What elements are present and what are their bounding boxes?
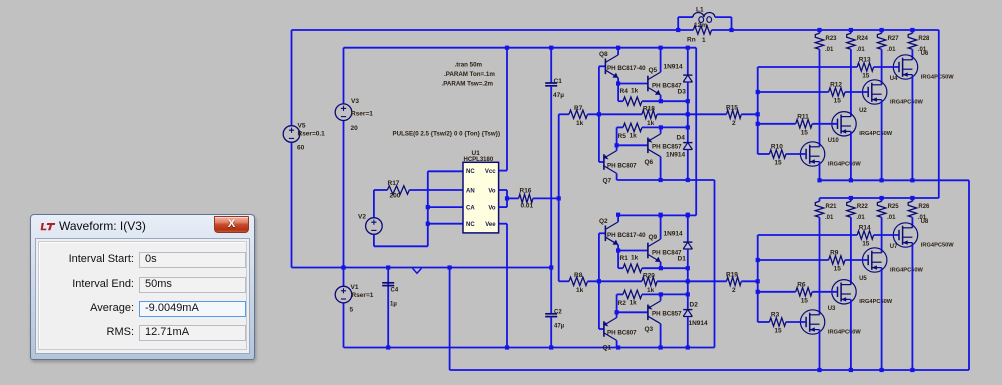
wire NPN emitter — [617, 245, 619, 251]
svg-text:AN: AN — [466, 188, 475, 194]
svg-text:Vee: Vee — [485, 222, 496, 228]
wire R left lead — [618, 267, 623, 269]
wire Vee pin — [499, 223, 507, 225]
node L1 right — [729, 28, 733, 32]
node Q3 collector rail A — [659, 345, 663, 349]
node emitter rail upper — [880, 178, 884, 182]
resistor Rn — [693, 26, 711, 34]
node collector rail top — [880, 28, 884, 32]
svg-text:R2: R2 — [618, 300, 627, 307]
node output top — [686, 99, 690, 103]
node output mid — [686, 279, 690, 283]
svg-text:1k: 1k — [647, 120, 655, 127]
wire Vcc pin — [499, 170, 507, 172]
svg-text:R7: R7 — [574, 105, 583, 112]
svg-text:C4: C4 — [391, 288, 399, 294]
svg-text:R12: R12 — [830, 82, 842, 89]
node opto drive — [557, 196, 561, 200]
resistor R8 — [569, 277, 588, 285]
wire NPN collector — [617, 48, 619, 55]
resistor R13 15 — [857, 63, 873, 71]
svg-text:R21: R21 — [826, 204, 838, 210]
wire diode mid column — [687, 249, 689, 310]
transistor U8 IRG4PC50W — [893, 223, 917, 247]
wire diode top feed — [687, 215, 689, 242]
svg-text:IRG4PC50W: IRG4PC50W — [859, 131, 893, 137]
transistor Q6 PH BC857 — [647, 138, 649, 154]
wire gate lead — [812, 291, 837, 293]
svg-text:V1: V1 — [351, 284, 359, 291]
transistor U6 IRG4PC50W — [893, 55, 917, 79]
svg-text:IRG4PC50W: IRG4PC50W — [859, 299, 893, 305]
wire collector lead — [819, 217, 821, 314]
resistor R14 15 — [857, 231, 873, 239]
wire mid NPN emitter drop — [660, 95, 662, 101]
svg-text:1N914: 1N914 — [664, 64, 684, 71]
svg-text:IRG4PC50W: IRG4PC50W — [921, 242, 955, 248]
wire mid NPN collector — [660, 215, 662, 239]
wire input to R20 — [588, 280, 643, 282]
node diode rail — [686, 46, 690, 50]
inductor L1 — [677, 17, 679, 30]
wire CA pin — [428, 206, 463, 208]
svg-text:R3: R3 — [771, 312, 780, 319]
node C2 rail A — [549, 345, 553, 349]
node mid PNP emitter — [659, 292, 663, 296]
wire C4 column — [387, 268, 389, 348]
wire V3 top — [343, 48, 345, 104]
node bottom rail — [849, 368, 853, 372]
wire collector lead — [819, 49, 821, 147]
wire upper emitter rail right — [820, 179, 970, 181]
resistor R6 15 — [796, 288, 813, 296]
svg-text:15: 15 — [834, 98, 842, 105]
wire up to emitter row — [616, 127, 618, 145]
node mid collector rail — [659, 213, 663, 217]
resistor R2 — [623, 290, 642, 298]
svg-text:R13: R13 — [859, 57, 871, 64]
wire to output node — [657, 113, 688, 115]
svg-text:R9: R9 — [830, 250, 839, 257]
wire gate lead — [786, 153, 806, 155]
node lower collector rail — [849, 196, 853, 200]
wire Vcc to rail — [506, 48, 508, 171]
wire mid PNP collector drop — [660, 324, 662, 347]
svg-text:200: 200 — [390, 193, 401, 200]
node mid PNP emitter — [659, 125, 663, 129]
node mid collector rail — [659, 46, 663, 50]
wire NC bottom pin — [428, 223, 463, 225]
wire Vo join — [506, 190, 508, 207]
wire gate feed vertical upper — [757, 67, 759, 154]
wire emitter row top — [642, 100, 688, 102]
wire collector lead — [850, 217, 852, 284]
svg-text:U10: U10 — [828, 138, 840, 144]
wire V2 minus lead — [373, 234, 375, 246]
wire R22 top lead — [850, 198, 852, 201]
wire mid PNP emitter rise — [660, 294, 662, 300]
wire lower Vee rail A — [344, 347, 715, 349]
svg-text:Rser=1: Rser=1 — [351, 111, 373, 118]
svg-text:PH BC857: PH BC857 — [652, 144, 682, 151]
node output top — [686, 266, 690, 270]
node D1 rail — [686, 213, 690, 217]
svg-text:Rn: Rn — [687, 37, 696, 44]
svg-text:IRG4PC50W: IRG4PC50W — [828, 161, 862, 167]
dialog Waveform: I(V3) — [30, 214, 255, 360]
svg-text:R8: R8 — [574, 272, 583, 279]
node lower collector rail — [910, 196, 914, 200]
wire V2 return bottom — [374, 245, 428, 247]
node bottom rail — [910, 368, 914, 372]
resistor R9 15 — [829, 256, 845, 264]
node Vcc rail junction — [505, 46, 509, 50]
svg-text:HCPL3180: HCPL3180 — [464, 157, 494, 163]
wire R17 left lead — [374, 189, 388, 191]
svg-text:R27: R27 — [888, 36, 900, 42]
diode D1 1N914 — [683, 241, 692, 243]
svg-text:Q8: Q8 — [599, 51, 608, 58]
wire R15 right lead — [741, 113, 757, 115]
wire chip left vertical — [427, 171, 429, 246]
wire NPN base lead — [599, 65, 606, 67]
svg-text:20: 20 — [351, 125, 359, 132]
wire bottom rail B — [450, 369, 969, 371]
resistor R10 15 — [769, 150, 786, 158]
svg-text:R28: R28 — [918, 36, 930, 42]
node R9 tap — [756, 258, 760, 262]
wire collector lead — [911, 49, 913, 60]
wire down to emitter row — [617, 251, 619, 269]
svg-text:R19: R19 — [726, 272, 738, 279]
node mid NPN emitter — [659, 266, 663, 270]
svg-text:2: 2 — [732, 120, 736, 127]
svg-text:Vo: Vo — [488, 188, 496, 194]
svg-text:U3: U3 — [828, 306, 836, 312]
wire diode bottom feed — [687, 317, 689, 348]
svg-text:R4: R4 — [620, 88, 629, 95]
op-amp U1 HCPL3180 body — [463, 162, 499, 233]
wire PNP collector drop — [616, 340, 618, 347]
wire R15 left lead — [688, 113, 727, 115]
resistor R24 .01 — [847, 33, 855, 49]
wire top rail right of Rn — [712, 29, 939, 31]
svg-text:Vcc: Vcc — [485, 169, 496, 175]
transistor Q8 PH BC817-40 — [604, 59, 606, 75]
svg-text:V5: V5 — [298, 123, 306, 130]
svg-text:5: 5 — [350, 307, 354, 314]
wire base column — [598, 233, 600, 329]
node V3-V1 mid rail — [341, 265, 345, 269]
svg-text:1N914: 1N914 — [664, 231, 684, 238]
svg-text:U2: U2 — [859, 108, 867, 114]
svg-text:D1: D1 — [678, 256, 687, 263]
diode D3 1N914 — [683, 74, 692, 76]
resistor R25 .01 — [877, 201, 885, 217]
wire emitter drop — [911, 243, 913, 370]
wire gate lead — [845, 91, 868, 93]
node diode rail — [686, 213, 690, 217]
wire V1 bottom — [343, 303, 345, 348]
wire R19 right lead — [741, 280, 757, 282]
wire R12 left lead — [758, 91, 829, 93]
node collector rail — [616, 46, 620, 50]
svg-text:1k: 1k — [631, 255, 639, 262]
svg-text:R16: R16 — [520, 188, 532, 195]
svg-text:R22: R22 — [857, 204, 869, 210]
wire R11 left lead — [758, 123, 796, 125]
wire mid NPN emitter drop — [660, 262, 662, 268]
svg-text:.01: .01 — [825, 215, 834, 221]
wire emitter drop — [850, 131, 852, 180]
svg-text:R23: R23 — [826, 36, 838, 42]
node D2 rail A — [686, 345, 690, 349]
resistor R21 .01 — [815, 201, 823, 217]
svg-text:.01: .01 — [825, 47, 834, 53]
svg-text:15: 15 — [834, 266, 842, 273]
transistor U3 IRG4PC50W — [800, 310, 824, 334]
wire ground drop — [449, 268, 451, 371]
wire R left lead — [618, 100, 623, 102]
svg-text:1k: 1k — [576, 287, 584, 294]
node collector rail top — [910, 28, 914, 32]
node L1 left — [676, 28, 680, 32]
wire V5 top — [291, 30, 293, 126]
resistor R23 .01 — [815, 33, 823, 49]
svg-text:R11: R11 — [797, 113, 809, 120]
node drive in upper — [756, 112, 760, 116]
svg-text:Q5: Q5 — [649, 67, 658, 74]
wire R27 top lead — [881, 30, 883, 33]
wire up to emitter row — [616, 294, 618, 312]
wire R28 top lead — [911, 30, 913, 33]
svg-text:PULSE(0 2.5 {Tsw/2} 0 0 {Ton}: PULSE(0 2.5 {Tsw/2} 0 0 {Ton} {Tsw}) — [393, 131, 501, 138]
capacitor C4 — [382, 282, 394, 284]
wire top rail left of Rn — [292, 29, 694, 31]
svg-text:Rser=0.1: Rser=0.1 — [298, 131, 326, 138]
wire emitter rail to rail A — [714, 180, 716, 348]
wire down to emitter row — [617, 84, 619, 102]
node Q6 collector rail — [659, 178, 663, 182]
node CA junction — [426, 205, 430, 209]
svg-text:IRG4PC50W: IRG4PC50W — [890, 99, 924, 105]
resistor R27 .01 — [877, 33, 885, 49]
node output mid — [686, 112, 690, 116]
ground flag — [413, 268, 422, 273]
svg-text:R15: R15 — [726, 105, 738, 112]
wire R left lead — [617, 126, 623, 128]
node ground drop — [448, 265, 452, 269]
svg-text:IRG4PC50W: IRG4PC50W — [890, 267, 924, 273]
wire emitter drop — [819, 162, 821, 181]
wire R3 left lead — [758, 321, 770, 323]
wire R21 top lead — [819, 198, 821, 201]
capacitor C1 — [545, 82, 557, 84]
svg-text:Q9: Q9 — [649, 234, 658, 241]
wire Vcc rail — [344, 47, 697, 49]
node output bottom — [686, 125, 690, 129]
svg-text:C1: C1 — [554, 78, 563, 85]
node C1 rail — [549, 46, 553, 50]
svg-text:15: 15 — [801, 297, 809, 304]
node mid NPN emitter — [659, 99, 663, 103]
svg-text:15: 15 — [801, 129, 809, 136]
node emitter rail upper — [910, 178, 914, 182]
svg-text:NC: NC — [466, 222, 475, 228]
node base tap — [597, 112, 601, 116]
wire gate lead — [874, 66, 899, 68]
voltage source V5 — [283, 126, 300, 143]
node PNP emitter tap — [615, 310, 619, 314]
wire emitter drop — [819, 330, 821, 370]
svg-text:1k: 1k — [630, 300, 638, 307]
svg-text:R14: R14 — [859, 225, 871, 232]
svg-text:1N914: 1N914 — [666, 152, 686, 159]
transistor U4 IRG4PC50W — [863, 80, 887, 104]
wire NPN base lead — [599, 232, 606, 234]
wire V2 plus lead — [373, 190, 375, 218]
svg-text:IRG4PC50W: IRG4PC50W — [828, 329, 862, 335]
svg-text:NC: NC — [466, 169, 475, 175]
node Vo junction — [505, 196, 509, 200]
node base tap — [597, 279, 601, 283]
node Q9 collector — [659, 213, 663, 217]
wire to output node — [657, 280, 688, 282]
svg-text:IRG4PC50W: IRG4PC50W — [921, 74, 955, 80]
node bottom rail — [817, 368, 821, 372]
wire to mid PNP base — [617, 144, 648, 146]
resistor R7 — [569, 110, 588, 118]
node R11 tap — [756, 122, 760, 126]
wire diode top feed — [687, 48, 689, 75]
wire PNP base lead — [599, 328, 604, 330]
wire R24 top lead — [850, 30, 852, 33]
wire gate lead — [845, 259, 868, 261]
svg-text:C2: C2 — [554, 310, 562, 316]
svg-text:Q7: Q7 — [603, 178, 612, 185]
svg-text:R17: R17 — [388, 180, 400, 187]
resistor R12 15 — [829, 88, 845, 96]
svg-text:47µ: 47µ — [554, 324, 565, 330]
wire PNP emitter — [616, 312, 618, 317]
svg-text:Vo: Vo — [488, 205, 496, 211]
node emitter rail upper — [817, 178, 821, 182]
wire V5 bottom — [291, 142, 293, 267]
wire R23 top lead — [819, 30, 821, 33]
voltage source V1 — [335, 286, 352, 303]
diode D2 1N914 — [683, 309, 692, 311]
transistor Q3 PH BC857 — [647, 305, 649, 321]
svg-text:.01: .01 — [856, 215, 865, 221]
wire Vcc drop to lower driver — [695, 48, 697, 216]
node R6 tap — [756, 290, 760, 294]
voltage source V3 — [335, 104, 352, 121]
wire emitter drop — [850, 299, 852, 370]
wire to mid NPN base — [618, 83, 648, 85]
svg-text:V2: V2 — [358, 214, 366, 221]
node C4 top — [386, 265, 390, 269]
wire drive feed vertical — [558, 114, 560, 281]
node collector rail top — [817, 28, 821, 32]
wire R25 top lead — [881, 198, 883, 201]
resistor R16 — [519, 194, 533, 202]
wire base column — [598, 66, 600, 162]
svg-text:R18: R18 — [643, 106, 655, 113]
transistor Q2 PH BC817-40 — [604, 226, 606, 242]
svg-text:D4: D4 — [677, 135, 686, 142]
node emitter tap — [616, 81, 620, 85]
wire gate lead — [812, 123, 837, 125]
wire lower collector rail — [820, 197, 939, 199]
svg-text:PH BC857: PH BC857 — [652, 311, 682, 318]
svg-text:.01: .01 — [887, 215, 896, 221]
svg-text:60: 60 — [297, 145, 305, 152]
svg-text:1k: 1k — [631, 88, 639, 95]
resistor R4 — [623, 97, 642, 105]
svg-text:.PARAM Tsw=.2m: .PARAM Tsw=.2m — [442, 81, 494, 88]
svg-text:R1: R1 — [620, 255, 629, 262]
wire R19 left lead — [688, 280, 727, 282]
svg-text:L1: L1 — [696, 7, 704, 14]
wire C1-C2 column — [550, 86, 552, 314]
node Vee rail A — [505, 345, 509, 349]
svg-text:1µ: 1µ — [390, 302, 397, 308]
wire diode mid column — [687, 82, 689, 143]
wire C2 bottom — [550, 317, 552, 348]
wire to mid NPN base — [618, 250, 648, 252]
svg-text:PH BC817-40: PH BC817-40 — [607, 232, 646, 239]
resistor R18 — [642, 110, 657, 118]
svg-text:1k: 1k — [647, 287, 655, 294]
transistor Q1 PH BC807 — [603, 321, 605, 337]
transistor U7 IRG4PC50W — [863, 248, 887, 272]
wire R left lead — [617, 293, 623, 295]
node emitter tap — [616, 248, 620, 252]
wire emitter row bottom — [642, 126, 688, 128]
node drive in lower — [756, 279, 760, 283]
wire emitter drop — [881, 100, 883, 181]
wire R13 left lead — [758, 66, 858, 68]
resistor R22 .01 — [847, 201, 855, 217]
resistor R17 — [387, 186, 409, 194]
resistor R11 15 — [796, 120, 813, 128]
voltage source V2 — [366, 218, 383, 235]
svg-text:R10: R10 — [771, 144, 783, 151]
node Q1 collector rail A — [616, 345, 620, 349]
resistor R15 — [727, 110, 742, 118]
wire NPN collector — [617, 215, 619, 222]
wire lower driver Vcc rail — [618, 214, 696, 216]
transistor Q9 PH BC847 — [647, 243, 649, 259]
svg-text:R26: R26 — [918, 204, 930, 210]
transistor U2 IRG4PC50W — [832, 112, 856, 136]
wire Vo2 pin — [499, 206, 507, 208]
svg-text:U1: U1 — [472, 150, 481, 157]
wire R10 left lead — [758, 153, 770, 155]
node mid rail end — [549, 265, 553, 269]
svg-text:CA: CA — [466, 205, 475, 211]
node bottom rail — [880, 368, 884, 372]
wire R7 left lead — [559, 113, 569, 115]
transistor Q7 PH BC807 — [603, 154, 605, 170]
wire emitter drop — [881, 268, 883, 370]
wire R8 left lead — [559, 280, 569, 282]
resistor R26 .01 — [908, 201, 916, 217]
svg-text:Q2: Q2 — [599, 218, 608, 225]
node R12 tap — [756, 90, 760, 94]
wire R16 right lead — [533, 197, 559, 199]
node collector rail — [616, 213, 620, 217]
